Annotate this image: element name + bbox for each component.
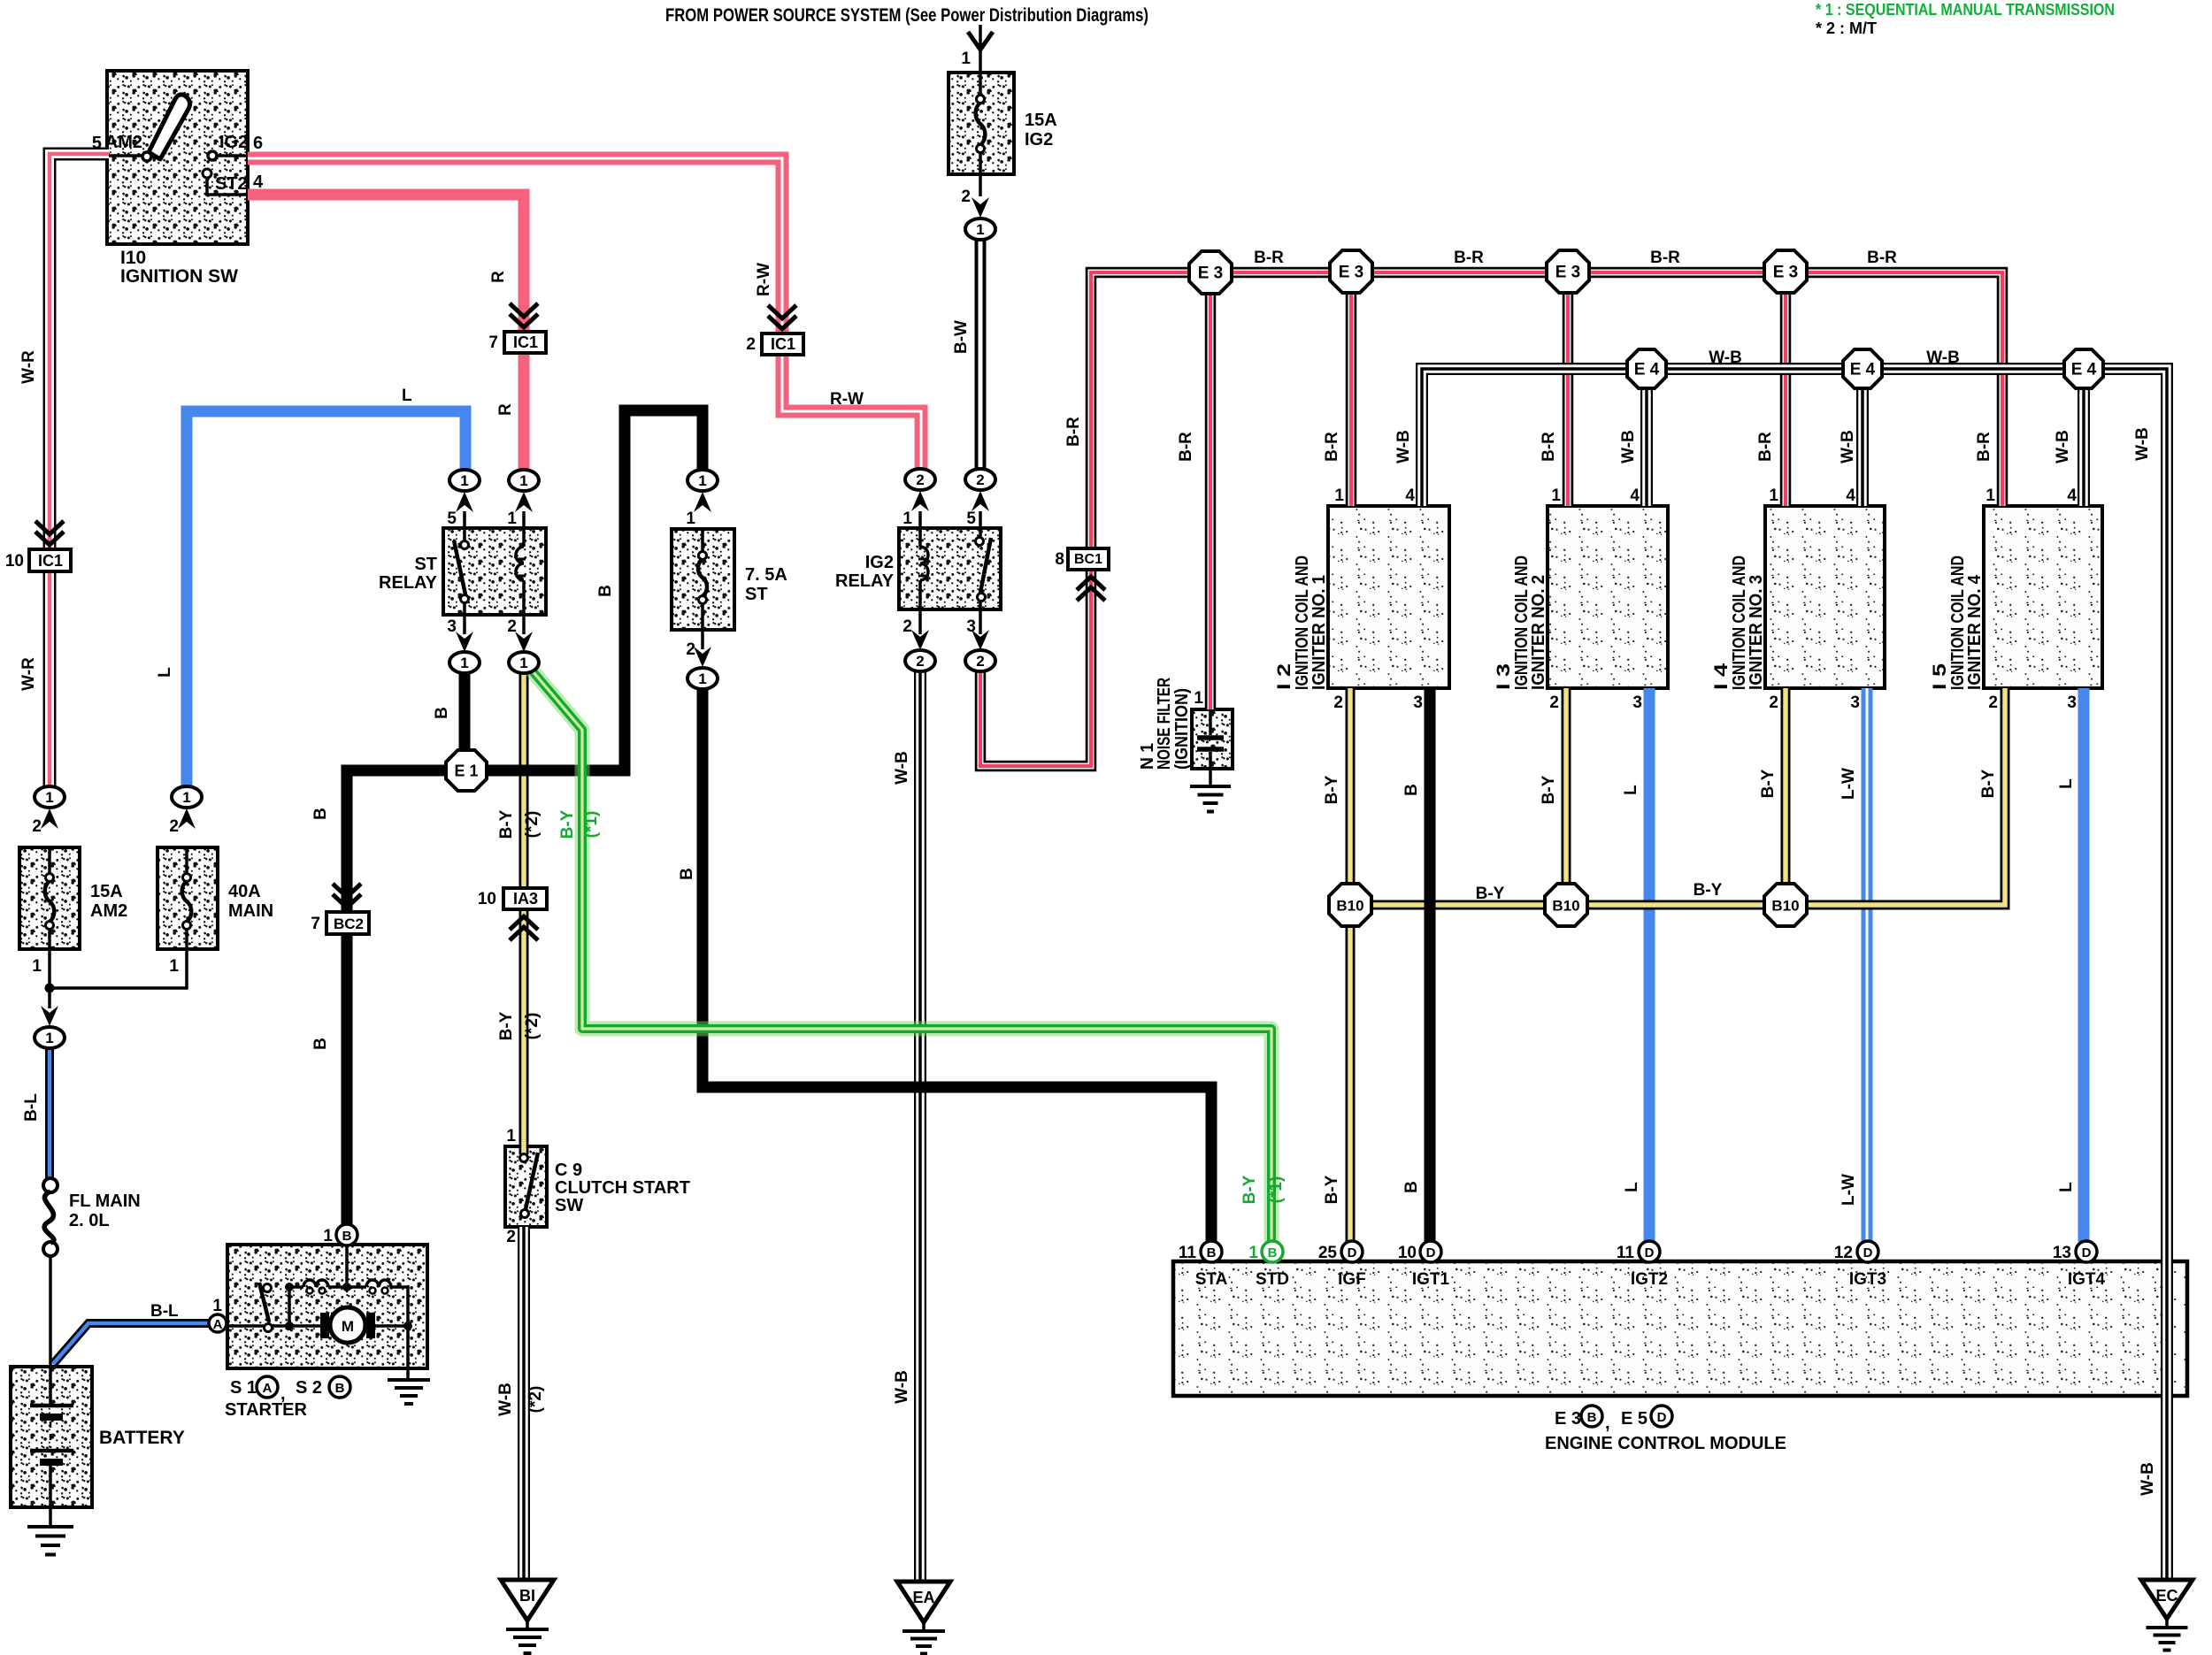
svg-text:FL MAIN: FL MAIN	[69, 1191, 141, 1211]
svg-text:12: 12	[1834, 1244, 1853, 1262]
svg-text:B-R: B-R	[1454, 249, 1484, 267]
svg-text:A: A	[263, 1381, 273, 1396]
svg-text:IG2: IG2	[219, 133, 248, 152]
ignition switch I10 box	[107, 71, 248, 244]
svg-text:IGNITER NO. 4: IGNITER NO. 4	[1965, 574, 1985, 690]
starter S1/S2 box	[227, 1245, 427, 1368]
svg-text:B-Y: B-Y	[1323, 775, 1341, 804]
svg-text:C 9: C 9	[555, 1161, 582, 1180]
ignition switch I10 internals: key lever and contacts	[149, 95, 190, 159]
svg-text:1: 1	[460, 472, 468, 489]
fuse element 15A IG2	[977, 96, 985, 103]
svg-text:2: 2	[1549, 693, 1559, 712]
svg-text:1: 1	[976, 221, 984, 238]
svg-text:ST: ST	[745, 585, 768, 604]
connector 1 above 15A AM2 fuse	[35, 786, 65, 808]
svg-text:IC1: IC1	[38, 552, 63, 570]
wire B-R from E3 junction 1 to noise filter N1	[1205, 294, 1217, 709]
svg-text:5: 5	[966, 510, 976, 528]
svg-text:W-B: W-B	[2054, 430, 2072, 464]
svg-text:B: B	[596, 585, 615, 597]
svg-text:1: 1	[519, 655, 527, 671]
fusible link FL MAIN 2.0L	[43, 1178, 58, 1192]
arrow out of ST relay pin 2	[515, 632, 533, 652]
junction B10 no.1	[1329, 884, 1371, 926]
connector 2 below IG2 relay pin 2	[905, 650, 935, 671]
arrow out of 7.5A ST fuse	[694, 647, 711, 667]
wire B-R from E3 junction 4 to I4 pin 1	[1780, 293, 1792, 506]
svg-text:R: R	[489, 271, 508, 283]
connector 1 below 15A IG2 fuse	[965, 218, 995, 240]
connector arrow into IC1 pin 10	[35, 521, 64, 545]
svg-text:L: L	[2057, 1182, 2076, 1192]
wire R from I10 ST2 pin 4 to ST relay pin 1	[248, 195, 524, 469]
svg-text:1: 1	[686, 510, 695, 528]
svg-text:(*1): (*1)	[582, 811, 601, 839]
svg-text:B10: B10	[1336, 898, 1363, 915]
svg-text:I 2: I 2	[1274, 663, 1294, 690]
svg-text:MAIN: MAIN	[228, 901, 273, 921]
junction E3 no.4	[1764, 250, 1807, 293]
wire L from 40A MAIN fuse to ST relay pin 5	[187, 411, 465, 786]
svg-text:EC: EC	[2155, 1587, 2177, 1605]
svg-text:2: 2	[916, 653, 924, 670]
fuse 40A MAIN box	[157, 847, 218, 949]
svg-text:1: 1	[519, 472, 527, 489]
svg-text:B-Y: B-Y	[497, 1011, 516, 1040]
svg-text:E 4: E 4	[1634, 361, 1660, 379]
wire from 40A MAIN fuse pin 1 to junction	[50, 949, 187, 988]
fuse 15A IG2 box	[949, 73, 1014, 174]
svg-text:3: 3	[2067, 693, 2077, 712]
ignition coil and igniter no.2 I3 box	[1548, 506, 1668, 688]
connector 1 below ST relay pin 2	[509, 652, 539, 673]
clutch start switch C9 internals	[520, 1154, 528, 1162]
svg-text:1: 1	[1985, 487, 1995, 505]
fuse element 40A MAIN	[183, 874, 191, 882]
svg-text:15A: 15A	[1025, 111, 1057, 130]
wire W-B from clutch start switch C9 to ground BI	[518, 1227, 530, 1580]
svg-text:D: D	[1863, 1245, 1873, 1260]
connector 2 at IG2 relay pin 1	[905, 469, 935, 490]
wire B-Y from ST relay pin 2 via IA3 to clutch start switch C9	[519, 672, 529, 1154]
arrow into connector above battery feed	[41, 1006, 58, 1026]
svg-text:R: R	[496, 403, 515, 416]
svg-text:3: 3	[1413, 693, 1423, 712]
fuse 15A AM2 box	[19, 847, 80, 949]
connector 1 at ST relay pin 5	[449, 470, 480, 491]
wire B-R from IG2 relay pin 3 via BC1 to junction E3	[980, 272, 1189, 766]
svg-text:B-R: B-R	[1756, 432, 1775, 462]
svg-text:4: 4	[253, 172, 264, 192]
svg-text:B-L: B-L	[150, 1302, 179, 1321]
ground symbol EA	[902, 1629, 945, 1633]
junction B10 no.3	[1764, 884, 1807, 926]
svg-text:1: 1	[961, 50, 971, 68]
svg-text:2: 2	[1769, 693, 1778, 712]
svg-text:IGNITION SW: IGNITION SW	[120, 266, 238, 287]
connector arrow out of BC1	[1077, 577, 1105, 601]
fuse element 7.5A ST	[699, 552, 707, 560]
svg-text:7: 7	[488, 333, 498, 352]
svg-text:B: B	[1402, 784, 1421, 796]
ECM pin 11 B STA	[1201, 1241, 1222, 1262]
svg-text:B-R: B-R	[1650, 249, 1680, 267]
svg-text:2: 2	[976, 653, 984, 670]
connector arrow out of IA3	[510, 916, 538, 940]
svg-text:13: 13	[2053, 1244, 2071, 1262]
svg-text:AM2: AM2	[105, 133, 142, 152]
wire W-B from IG2 relay pin 2 to ground EA	[914, 670, 926, 1580]
svg-text:7: 7	[311, 915, 320, 933]
connector 2 below IG2 relay pin 3	[965, 650, 995, 671]
svg-text:* 2 : M/T: * 2 : M/T	[1816, 19, 1877, 37]
wire B from starter terminal B via BC2 to junction E1	[347, 770, 446, 1224]
svg-text:M: M	[342, 1318, 354, 1335]
wire B-Y (*1) highlighted from ST relay pin 2 to ECM STD	[528, 666, 1271, 1242]
svg-text:2: 2	[961, 188, 971, 206]
starter terminal B circle	[336, 1224, 357, 1245]
svg-text:3: 3	[1850, 693, 1860, 712]
wire W-B from E4 junction 2 to I4 pin 4	[1856, 388, 1869, 506]
svg-text:B-Y: B-Y	[1240, 1175, 1259, 1204]
svg-text:B10: B10	[1771, 898, 1799, 915]
ground symbol BI	[506, 1628, 549, 1631]
svg-text:1: 1	[212, 1297, 222, 1315]
arrow out of ST relay pin 3	[456, 632, 473, 652]
svg-text:* 1 : SEQUENTIAL MANUAL TRANSM: * 1 : SEQUENTIAL MANUAL TRANSMISSION	[1816, 1, 2115, 19]
arrow into ST relay pin 5	[456, 492, 473, 512]
svg-text:B-R: B-R	[1867, 249, 1897, 267]
svg-text:E 1: E 1	[454, 762, 478, 780]
svg-text:W-B: W-B	[893, 751, 911, 785]
svg-text:B-R: B-R	[1064, 417, 1083, 447]
svg-text:BI: BI	[519, 1587, 535, 1605]
svg-text:IC1: IC1	[513, 333, 538, 351]
svg-text:B: B	[1268, 1245, 1278, 1260]
ignition coil and igniter no.4 I5 box	[1984, 506, 2102, 688]
wire W-B between E4 junctions 2-3	[1882, 363, 2064, 375]
wire from junction to connector	[48, 988, 51, 1008]
svg-text:BC2: BC2	[334, 916, 364, 932]
svg-text:IGNITER NO. 3: IGNITER NO. 3	[1747, 575, 1766, 690]
svg-text:1: 1	[32, 957, 42, 976]
wire B-R between E3 junctions 1-2	[1232, 267, 1330, 279]
junction of AM2 and MAIN fuse outputs	[45, 984, 55, 993]
svg-text:W-B: W-B	[1394, 430, 1413, 464]
svg-text:B: B	[433, 707, 451, 719]
svg-text:ST: ST	[414, 555, 437, 574]
svg-text:(*2): (*2)	[523, 811, 541, 839]
svg-text:IG2: IG2	[865, 553, 894, 572]
wire from FL MAIN to battery	[49, 1256, 52, 1367]
svg-text:B-R: B-R	[1975, 432, 1993, 462]
wire W-B from E4 junction 3 to I5 pin 4	[2078, 388, 2090, 506]
junction dot starter coil line	[342, 1283, 351, 1291]
svg-text:W-B: W-B	[496, 1383, 515, 1416]
svg-text:W-R: W-R	[19, 350, 38, 384]
svg-text:B: B	[1402, 1181, 1421, 1193]
svg-text:L: L	[402, 387, 412, 405]
power source feed arrow to 15A IG2	[968, 32, 993, 50]
ST relay box	[443, 528, 546, 615]
junction connector IC1 pin 7	[504, 332, 546, 353]
wire B from ST relay pin 3 to junction E1	[459, 672, 471, 751]
svg-text:W-B: W-B	[2133, 427, 2152, 461]
junction E4 no.2	[1843, 349, 1882, 388]
svg-text:B-Y: B-Y	[558, 809, 577, 839]
ECM pin 11 D IGT2	[1639, 1241, 1660, 1262]
svg-text:1: 1	[1194, 689, 1203, 708]
svg-text:D: D	[1348, 1245, 1357, 1260]
svg-text:IGNITER NO. 2: IGNITER NO. 2	[1529, 575, 1548, 690]
ground point BI	[501, 1580, 554, 1621]
svg-text:L-W: L-W	[1839, 1174, 1858, 1206]
wire L from I3 pin 3 to ECM IGT2	[1644, 688, 1655, 1242]
svg-text:3: 3	[1632, 693, 1642, 712]
connector 1 below 7.5A ST fuse	[687, 668, 718, 689]
svg-text:W-B: W-B	[1619, 430, 1638, 464]
svg-text:BC1: BC1	[1074, 552, 1102, 567]
svg-text:SW: SW	[555, 1196, 583, 1215]
svg-text:B: B	[335, 1381, 345, 1396]
svg-text:B-R: B-R	[1540, 432, 1558, 462]
arrow into 7.5A ST fuse	[694, 492, 711, 512]
svg-text:STA: STA	[1195, 1270, 1228, 1289]
noise filter N1 internals: capacitor	[1209, 709, 1212, 735]
svg-text:1: 1	[1769, 487, 1778, 505]
svg-text:ENGINE CONTROL MODULE: ENGINE CONTROL MODULE	[1545, 1434, 1786, 1453]
svg-text:10: 10	[478, 890, 496, 908]
svg-text:5: 5	[447, 510, 457, 528]
wire B from junction E1 to 7.5A ST fuse	[487, 410, 703, 770]
noise filter N1 box	[1192, 709, 1233, 769]
wire feed from power source to 15A IG2 fuse	[979, 25, 982, 73]
ground point EA	[897, 1582, 950, 1622]
svg-text:RELAY: RELAY	[379, 573, 438, 593]
svg-text:B-Y: B-Y	[1323, 1175, 1341, 1204]
wire L from I5 pin 3 to ECM IGT4	[2078, 688, 2090, 1242]
svg-text:2: 2	[1988, 693, 1998, 712]
ground at noise filter	[1190, 785, 1231, 788]
svg-text:2: 2	[507, 617, 517, 636]
svg-text:B-R: B-R	[1254, 249, 1284, 267]
svg-text:E 3: E 3	[1555, 264, 1581, 282]
svg-text:E 3: E 3	[1773, 264, 1799, 282]
ignition coil and igniter no.1 I2 box	[1328, 506, 1449, 688]
svg-text:,: ,	[1605, 1414, 1610, 1433]
wire R-W from I10 IG2 pin 6 to IG2 relay pin 1	[248, 158, 921, 469]
svg-text:E 4: E 4	[2071, 361, 2097, 379]
wire W-B from I2 pin 4 to junction E4	[1422, 369, 1627, 506]
svg-text:E 3: E 3	[1339, 264, 1364, 282]
arrow into ST relay pin 1	[515, 492, 533, 512]
svg-text:IGT4: IGT4	[2068, 1270, 2106, 1289]
svg-text:1: 1	[1551, 487, 1561, 505]
svg-text:B: B	[311, 1038, 330, 1050]
wire B-W from 15A IG2 fuse to IG2 relay pin 5	[975, 240, 987, 469]
svg-text:11: 11	[1179, 1244, 1197, 1262]
wire B-Y from I3 pin 2 to junction B10	[1562, 688, 1571, 885]
svg-text:STARTER: STARTER	[225, 1400, 308, 1420]
junction connector IC1 pin 2	[762, 333, 803, 355]
svg-text:A: A	[213, 1317, 223, 1332]
svg-text:1: 1	[698, 472, 706, 489]
svg-text:W-B: W-B	[1709, 349, 1742, 367]
svg-text:W-R: W-R	[19, 657, 38, 691]
svg-text:4: 4	[1846, 487, 1855, 505]
junction E4 no.1	[1627, 349, 1666, 388]
svg-text:B: B	[1207, 1245, 1217, 1260]
svg-text:S 2: S 2	[296, 1378, 322, 1398]
arrow into IG2 relay pin 5	[972, 491, 989, 511]
svg-text:2: 2	[976, 471, 984, 488]
junction E3 no.1	[1189, 251, 1232, 294]
svg-text:B-L: B-L	[22, 1093, 41, 1122]
svg-text:L: L	[1623, 1182, 1641, 1192]
svg-text:B-Y: B-Y	[497, 809, 516, 839]
svg-text:1: 1	[45, 1030, 53, 1046]
svg-text:E 3: E 3	[1555, 1409, 1581, 1429]
svg-text:IGT3: IGT3	[1849, 1270, 1886, 1289]
svg-text:B: B	[1587, 1410, 1597, 1425]
connector arrow into IC1 pin 2	[768, 305, 796, 329]
svg-text:40A: 40A	[228, 882, 261, 901]
wire B-Y from I4 pin 2 to junction B10	[1781, 688, 1791, 882]
svg-text:AM2: AM2	[90, 901, 127, 921]
svg-text:3: 3	[447, 617, 457, 636]
svg-text:I 3: I 3	[1494, 663, 1514, 690]
svg-text:2: 2	[506, 1228, 516, 1246]
svg-text:2. 0L: 2. 0L	[69, 1211, 110, 1230]
ground below battery	[27, 1525, 73, 1529]
svg-text:IG2: IG2	[1025, 130, 1053, 149]
svg-text:1: 1	[506, 1127, 516, 1145]
connector 2 at IG2 relay pin 5	[965, 469, 995, 490]
svg-text:4: 4	[1405, 487, 1415, 505]
svg-text:1: 1	[698, 670, 706, 687]
junction connector IC1 pin 10	[29, 549, 71, 571]
wire B from I2 pin 3 to ECM IGT1	[1425, 688, 1436, 1242]
battery internals	[49, 1367, 52, 1406]
connector 1 below ST relay pin 3	[449, 652, 480, 673]
clutch start switch C9 box	[505, 1146, 547, 1227]
svg-text:B-R: B-R	[1177, 432, 1195, 462]
svg-text:W-B: W-B	[1926, 349, 1960, 367]
wire B-L from connector to fusible link FL MAIN	[45, 1048, 54, 1178]
starter terminal A circle	[209, 1314, 227, 1332]
connector 1 above 7.5A ST fuse	[687, 470, 718, 491]
svg-text:25: 25	[1318, 1244, 1338, 1262]
arrow into IG2 relay pin 1	[911, 491, 929, 511]
svg-text:E 3: E 3	[1198, 264, 1224, 283]
svg-text:15A: 15A	[90, 882, 123, 901]
svg-text:2: 2	[902, 617, 912, 636]
svg-text:IGNITER NO. 1: IGNITER NO. 1	[1310, 575, 1329, 690]
connector 1 above fusible link	[35, 1027, 65, 1048]
svg-text:IGT2: IGT2	[1631, 1270, 1668, 1289]
svg-text:L: L	[1622, 785, 1640, 795]
svg-text:IGF: IGF	[1338, 1270, 1366, 1289]
svg-text:STD: STD	[1256, 1270, 1289, 1289]
connector 1 above 40A MAIN fuse	[172, 786, 202, 808]
svg-text:4: 4	[1630, 487, 1640, 505]
svg-text:D: D	[2082, 1245, 2092, 1260]
junction E3 no.2	[1330, 250, 1372, 293]
svg-text:1: 1	[182, 789, 190, 806]
wire B-R from E3 junction 4 to I5 pin 1	[1807, 272, 2002, 506]
arrow out of 15A IG2 fuse	[972, 197, 989, 218]
svg-text:5: 5	[92, 134, 102, 153]
connector arrow into BC2 pin 7	[333, 884, 361, 908]
svg-text:1: 1	[902, 510, 912, 528]
wire W-B from E4 junction 1 to I3 pin 4	[1640, 388, 1653, 506]
wire B-Y joining B10 junctions to I5 pin 2	[1371, 688, 2005, 905]
IG2 relay internals: coil and switch	[918, 511, 922, 547]
svg-text:IGT1: IGT1	[1412, 1270, 1450, 1289]
ground at starter	[388, 1378, 430, 1382]
svg-text:EA: EA	[912, 1589, 934, 1606]
junction E1	[446, 750, 487, 791]
IG2 relay box	[899, 528, 1001, 609]
svg-text:2: 2	[169, 817, 179, 836]
wire B-R between E3 junctions 3-4	[1589, 267, 1764, 279]
svg-text:B: B	[342, 1229, 352, 1244]
svg-text:2: 2	[916, 471, 924, 488]
connector arrow into IC1 pin 7	[510, 303, 538, 327]
starter internals: contact switch, coils, motor	[345, 1245, 349, 1287]
svg-text:S 1: S 1	[230, 1378, 257, 1398]
svg-text:B10: B10	[1552, 898, 1579, 915]
svg-text:1: 1	[45, 789, 53, 806]
svg-text:D: D	[1645, 1245, 1655, 1260]
svg-text:D: D	[1657, 1410, 1667, 1425]
ECM pin 25 D IGF	[1341, 1241, 1363, 1262]
svg-text:2: 2	[1333, 693, 1343, 712]
svg-text:1: 1	[507, 510, 517, 528]
svg-text:B-W: B-W	[952, 320, 971, 354]
svg-text:BATTERY: BATTERY	[99, 1428, 185, 1448]
svg-text:E 5: E 5	[1621, 1409, 1647, 1429]
ignition coil and igniter no.3 I4 box	[1765, 506, 1885, 688]
svg-text:W-B: W-B	[2139, 1462, 2157, 1496]
wire L-W from I4 pin 3 to ECM IGT3	[1862, 688, 1873, 1242]
battery box	[11, 1367, 92, 1507]
wire B-L from battery to starter terminal A	[53, 1323, 209, 1364]
svg-text:R-W: R-W	[755, 263, 773, 296]
junction connector BC1 pin 8	[1068, 548, 1109, 570]
wire B-R from E3 junction 3 to I3 pin 1	[1563, 293, 1574, 506]
wire B from 7.5A ST fuse to ECM STA	[703, 689, 1211, 1242]
svg-text:B: B	[311, 808, 330, 820]
junction B10 no.2	[1545, 884, 1587, 926]
arrow into connector above 40A MAIN	[178, 808, 196, 829]
svg-text:(*1): (*1)	[1267, 1176, 1286, 1204]
svg-text:E 4: E 4	[1850, 361, 1876, 379]
ST relay internals: switch and coil	[463, 511, 466, 540]
svg-text:L: L	[2057, 778, 2076, 789]
svg-text:1: 1	[323, 1227, 333, 1245]
svg-text:CLUTCH START: CLUTCH START	[555, 1178, 690, 1198]
svg-text:(*2): (*2)	[526, 1386, 545, 1414]
fuse 7.5A ST box	[672, 529, 734, 630]
wire from 15A AM2 fuse pin 1 to junction	[48, 949, 51, 988]
svg-text:1: 1	[460, 655, 468, 671]
wire B-Y from I2 pin 2 via B10 to ECM IGF	[1346, 688, 1356, 1242]
svg-text:1: 1	[1248, 1244, 1258, 1262]
svg-text:IC1: IC1	[771, 335, 795, 353]
svg-text:FROM POWER SOURCE SYSTEM (See: FROM POWER SOURCE SYSTEM (See Power Dist…	[665, 5, 1148, 26]
